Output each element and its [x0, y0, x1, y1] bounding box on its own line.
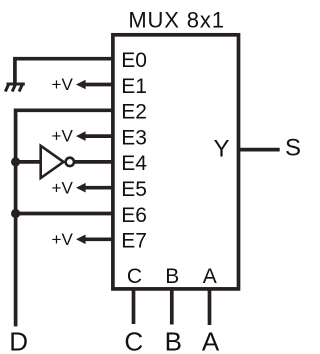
svg-text:S: S — [285, 134, 301, 161]
svg-text:E1: E1 — [121, 75, 147, 98]
wire E2 to node D vertical rail — [16, 110, 113, 326]
wire E6 from rail — [16, 212, 113, 216]
svg-text:A: A — [203, 265, 217, 288]
+V source arrow into E7 — [84, 237, 113, 241]
svg-text:E5: E5 — [121, 178, 147, 201]
svg-text:B: B — [165, 265, 179, 288]
svg-text:+V: +V — [52, 127, 74, 146]
+V source arrow into E3 — [84, 134, 113, 138]
junction dot on rail at E6 row — [11, 209, 20, 218]
wire inverter input from rail — [16, 160, 40, 164]
+V source arrow into E1 — [84, 83, 113, 87]
svg-text:E3: E3 — [121, 126, 147, 149]
svg-text:C: C — [127, 265, 142, 288]
svg-text:E0: E0 — [121, 49, 147, 72]
svg-text:Y: Y — [213, 136, 229, 163]
svg-text:E2: E2 — [121, 101, 147, 124]
svg-text:+V: +V — [52, 75, 74, 94]
+V source arrow into E5 — [84, 186, 113, 190]
svg-text:D: D — [9, 326, 28, 354]
svg-text:E4: E4 — [121, 152, 147, 175]
ground — [5, 84, 25, 92]
wire inverter output to E4 — [75, 160, 113, 164]
svg-text:C: C — [124, 326, 143, 354]
inverter U2 — [41, 146, 64, 178]
wire select B — [170, 289, 174, 325]
wire select A — [208, 289, 212, 325]
wire E0 input with ground stem — [15, 59, 113, 83]
svg-text:+V: +V — [52, 178, 74, 197]
wire Y output to S — [238, 148, 280, 152]
svg-text:MUX 8x1: MUX 8x1 — [128, 8, 224, 33]
svg-text:B: B — [165, 326, 182, 354]
svg-text:A: A — [202, 326, 220, 354]
mux body U1 — [113, 35, 239, 289]
wire select C — [132, 289, 136, 324]
svg-text:E7: E7 — [121, 230, 147, 253]
svg-text:E6: E6 — [121, 204, 147, 227]
junction dot on rail at E4 row — [11, 157, 20, 166]
svg-text:+V: +V — [52, 230, 74, 249]
